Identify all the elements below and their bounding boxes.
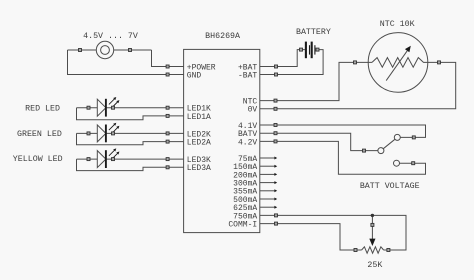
junction cathode row 2 xyxy=(112,132,115,135)
junction +BAT pin xyxy=(275,65,278,68)
svg-text:RED LED: RED LED xyxy=(25,105,60,114)
junction thermistor right xyxy=(438,61,441,64)
svg-text:25K: 25K xyxy=(367,261,382,270)
wire COMM-I to pot left xyxy=(260,224,362,250)
power source V1 (double circle) xyxy=(96,41,113,58)
svg-text:GND: GND xyxy=(187,71,202,80)
thermistor RT1 NTC 10K xyxy=(368,33,428,93)
junction LED2A pin xyxy=(166,140,169,143)
svg-text:BH6269A: BH6269A xyxy=(205,32,240,41)
junction NTC pin xyxy=(274,99,277,102)
wire NTC pin to thermistor xyxy=(260,62,372,100)
svg-text:LED1A: LED1A xyxy=(187,113,211,122)
junction -BAT pin xyxy=(275,73,278,76)
wire 4.2V to switch lower throw xyxy=(260,141,426,174)
junction pot wiper xyxy=(371,223,374,226)
junction GND pin xyxy=(166,73,169,76)
pot wiper arrow xyxy=(371,215,373,239)
stub NC pin 625mA xyxy=(260,206,275,208)
svg-text:GREEN LED: GREEN LED xyxy=(17,130,62,139)
junction switch common xyxy=(363,149,366,152)
junction switch upper xyxy=(412,136,415,139)
wire to +POWER xyxy=(152,50,184,67)
stub NC pin 200mA xyxy=(260,173,275,175)
svg-text:0V: 0V xyxy=(248,106,258,115)
battery B1 xyxy=(305,42,307,59)
svg-text:-BAT: -BAT xyxy=(238,71,257,80)
svg-text:NTC 10K: NTC 10K xyxy=(380,20,415,29)
switch SW1 common contact xyxy=(378,148,384,154)
junction LED2K pin xyxy=(166,132,169,135)
svg-text:LED2A: LED2A xyxy=(187,139,211,148)
junction 4.1V pin xyxy=(274,124,277,127)
junction battery - xyxy=(316,48,319,51)
stub NC pin 300mA xyxy=(260,182,275,184)
LED3 D3 yellow xyxy=(77,158,98,160)
junction anode row 3 xyxy=(87,158,90,161)
junction switch lower xyxy=(412,162,415,165)
wire +BAT to battery xyxy=(260,50,305,67)
junction 0V pin xyxy=(274,107,277,110)
stub NC pin 150mA xyxy=(260,165,275,167)
svg-text:COMM-I: COMM-I xyxy=(228,221,257,230)
node 750mA/wiper junction dot xyxy=(371,214,374,217)
switch lever xyxy=(383,139,395,148)
junction cathode row 3 xyxy=(112,158,115,161)
svg-text:BATTERY: BATTERY xyxy=(296,28,331,37)
svg-text:BATT VOLTAGE: BATT VOLTAGE xyxy=(360,182,420,191)
wire battery to -BAT xyxy=(260,50,323,75)
junction cathode row 1 xyxy=(112,106,115,109)
LED1 D1 red xyxy=(77,107,98,109)
wire power left lead xyxy=(68,49,97,51)
junction pot right xyxy=(387,249,390,252)
junction COMM-I pin xyxy=(275,222,278,225)
junction power left xyxy=(79,49,82,52)
svg-text:YELLOW LED: YELLOW LED xyxy=(13,155,63,164)
junction battery + xyxy=(300,48,303,51)
wire anode loop row 2 xyxy=(77,133,184,144)
junction pot left xyxy=(354,249,357,252)
junction anode row 1 xyxy=(87,106,90,109)
thermistor arrow xyxy=(386,51,407,81)
junction BATV pin xyxy=(274,132,277,135)
switch SW1 upper throw contact xyxy=(394,134,400,140)
wire 4.1V to switch upper throw xyxy=(260,125,426,137)
stub NC pin 75mA xyxy=(260,157,275,159)
stub NC pin 500mA xyxy=(260,198,275,200)
stub NC pin 355mA xyxy=(260,190,275,192)
LED2 D2 green xyxy=(77,132,98,134)
junction LED1A pin xyxy=(166,114,169,117)
wire anode loop row 3 xyxy=(77,159,184,171)
junction LED1K pin xyxy=(166,106,169,109)
potentiometer R1 25K xyxy=(362,247,384,253)
svg-text:4.2V: 4.2V xyxy=(238,138,257,147)
junction LED3K pin xyxy=(166,158,169,161)
svg-text:LED3A: LED3A xyxy=(187,164,211,173)
junction 4.2V pin xyxy=(274,140,277,143)
junction thermistor left xyxy=(354,61,357,64)
junction LED3A pin xyxy=(166,166,169,169)
thermistor zigzag xyxy=(372,58,428,68)
switch SW1 lower throw contact xyxy=(394,160,400,166)
junction anode row 2 xyxy=(87,132,90,135)
wire power right lead xyxy=(114,49,152,51)
wire thermistor to 0V xyxy=(260,62,456,108)
wire 750mA rail xyxy=(260,215,406,250)
wire GND rail xyxy=(68,50,184,75)
wire BATV to switch common xyxy=(260,133,378,150)
junction +POWER pin xyxy=(166,65,169,68)
svg-text:4.5V ... 7V: 4.5V ... 7V xyxy=(83,32,138,41)
op-amp U1 BH6269A body xyxy=(184,49,260,232)
wire anode loop row 1 xyxy=(77,108,184,120)
junction 750mA pin xyxy=(275,214,278,217)
junction power right xyxy=(129,49,132,52)
